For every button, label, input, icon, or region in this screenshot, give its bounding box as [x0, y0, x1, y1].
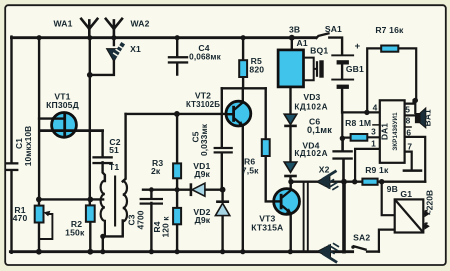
wire G1 lower terminal via SA2 [379, 230, 395, 252]
capacitor C3 [140, 198, 163, 205]
transistor VT3 [274, 189, 300, 215]
capacitor C4 [168, 56, 188, 64]
svg-text:VD3: VD3 [303, 92, 320, 102]
wire C5 stubs [221, 88, 223, 189]
wire R7 right loop [398, 48, 416, 100]
antenna WA1 [81, 19, 97, 38]
capacitor C5 [214, 147, 233, 154]
wire VD4 to X2 row [289, 177, 291, 182]
wire pin7 end bar [404, 169, 421, 172]
connector X2 upper arrow [317, 171, 339, 190]
wire VT2 collector emitter verticals [242, 88, 244, 252]
piezo BQ1 [304, 58, 324, 81]
wire VD3 to VD4 [289, 126, 291, 162]
wire R6 stubs [266, 88, 282, 201]
svg-text:R9 1к: R9 1к [365, 165, 389, 175]
wire A1 to VD3 [289, 87, 291, 115]
resistor R8 [351, 134, 368, 141]
svg-text:10мкх10В: 10мкх10В [23, 126, 33, 167]
wire R5 stubs [242, 38, 244, 89]
svg-text:ЗКР1436УИ1: ЗКР1436УИ1 [392, 112, 399, 151]
wire X2 connector bracket lines [304, 182, 308, 252]
capacitor C6 [332, 150, 352, 160]
wire R1 stubs [38, 199, 40, 252]
wire VT3 collector vertical [290, 182, 292, 191]
resistor R1 (trimmer) [35, 206, 53, 239]
wire SA2 resume [367, 250, 379, 252]
speaker BA1 [415, 108, 426, 128]
antenna WA2 [106, 19, 122, 38]
svg-text:5: 5 [405, 105, 410, 115]
wire VT2 base row [126, 113, 227, 115]
svg-text:2к: 2к [151, 166, 161, 176]
wire R7 left loop [367, 48, 381, 112]
resistor R9 [362, 179, 377, 185]
svg-text:470: 470 [13, 213, 28, 223]
svg-text:3В: 3В [289, 25, 300, 35]
diode VD2 [215, 202, 229, 216]
wire battery bus down to R8 [341, 112, 343, 139]
wire VT3 emitter vertical [290, 213, 292, 252]
transformer T1 [101, 175, 127, 237]
module A1 [278, 50, 303, 87]
svg-text:Д9к: Д9к [195, 215, 211, 225]
switch SA2 [353, 246, 367, 250]
transistor VT1 [52, 113, 77, 138]
wire R8 stubs [342, 136, 380, 139]
svg-text:51: 51 [109, 145, 119, 155]
svg-text:7: 7 [407, 142, 412, 152]
svg-text:КД102А: КД102А [294, 149, 328, 158]
wire X2 thick minus link [342, 182, 346, 252]
wire X1 to drain [90, 38, 114, 75]
svg-text:A1: A1 [297, 38, 308, 48]
wire G1 upper terminal [382, 182, 395, 216]
battery GB1 [331, 54, 354, 89]
svg-text:КП305Д: КП305Д [46, 100, 79, 110]
wire left vertical (C1 branch) [10, 37, 12, 253]
svg-text:T1: T1 [109, 162, 119, 172]
svg-text:КТ3102Б: КТ3102Б [186, 100, 220, 109]
wire T1 bottom link [103, 221, 123, 252]
capacitor C1 [6, 162, 19, 171]
wire VT1 gate horizontal [39, 117, 65, 119]
svg-text:0,068мк: 0,068мк [189, 52, 221, 61]
transistor VT2 [226, 101, 251, 126]
resistor R4 [173, 208, 181, 224]
svg-text:DA1: DA1 [380, 123, 390, 140]
connector X2 lower arrow [317, 243, 339, 262]
svg-text:1: 1 [371, 139, 376, 149]
wire R3 drop [176, 114, 178, 190]
wire bottom common rail [10, 250, 352, 253]
switch SA1 [316, 33, 330, 39]
wire T1 secondary top to base row [123, 114, 126, 181]
diode VD1 [191, 183, 205, 196]
svg-text:+: + [355, 41, 361, 52]
svg-text:WA2: WA2 [130, 19, 149, 29]
svg-text:SA1: SA1 [325, 24, 342, 34]
wire VT1 source row [40, 129, 102, 132]
wire DA1 pin1 loop [355, 149, 380, 182]
svg-text:820: 820 [249, 64, 264, 74]
wire C6 stubs [341, 138, 344, 182]
wire top antenna rail [12, 36, 316, 39]
wire drain vertical x90 [89, 38, 91, 206]
svg-text:7,5к: 7,5к [242, 165, 259, 175]
svg-text:4700: 4700 [136, 210, 146, 229]
wire C3 stubs [150, 190, 152, 252]
wire DA1 pin8 [405, 114, 415, 116]
wire C2 top corner [101, 131, 103, 157]
svg-text:0,1мк: 0,1мк [307, 125, 332, 135]
wire G1 prong stubs [423, 214, 425, 227]
wire X2 plus row [291, 180, 425, 182]
svg-text:R7 16к: R7 16к [375, 25, 404, 35]
svg-text:4: 4 [373, 103, 378, 113]
resistor R5 [239, 60, 247, 77]
svg-text:Д9к: Д9к [194, 169, 210, 179]
rotated labels [14, 109, 435, 237]
svg-text:GB1: GB1 [346, 64, 364, 74]
svg-text:WA1: WA1 [53, 19, 72, 29]
wire A1 top stub [291, 38, 293, 50]
wire R2 stub bottom [89, 222, 91, 252]
G1 mains prongs [424, 210, 429, 230]
DA1 pin numbers [371, 103, 412, 152]
svg-text:X2: X2 [319, 164, 330, 174]
svg-text:SA2: SA2 [353, 232, 370, 242]
wire DA1 pin7 [405, 152, 412, 171]
resistor R3 [173, 163, 181, 178]
capacitor C2 [92, 156, 112, 164]
wire R4 stubs [176, 190, 178, 252]
plug X1 [107, 43, 124, 61]
svg-text:8: 8 [406, 116, 411, 126]
svg-text:BA1: BA1 [423, 109, 433, 126]
wire VT1 gate branch vertical [38, 38, 40, 200]
resistor R6 [262, 139, 270, 156]
wire C2 bottom to T1 [103, 162, 105, 181]
wire VD2 stubs [221, 190, 223, 252]
svg-text:BQ1: BQ1 [310, 45, 328, 55]
wire VT2 upper row y88 [222, 87, 266, 89]
IC DA1 [372, 100, 412, 163]
wire SA1 out to battery [329, 38, 342, 55]
wire GB1 cells link [341, 65, 343, 113]
svg-text:~220В: ~220В [424, 190, 434, 215]
wire detector row y190 [143, 188, 223, 190]
power unit G1 [395, 199, 424, 232]
wire DA1 pin5 [405, 100, 414, 103]
svg-text:150к: 150к [65, 228, 85, 238]
svg-text:0,033мк: 0,033мк [199, 123, 209, 156]
wire DA1 pin4 row [342, 111, 380, 113]
wire R1 R2 row [39, 198, 103, 200]
svg-text:X1: X1 [130, 44, 141, 54]
svg-text:120 к: 120 к [161, 216, 171, 238]
svg-text:G1: G1 [400, 189, 412, 199]
svg-text:R8 1М: R8 1М [345, 118, 371, 128]
wire C4 stub [176, 38, 178, 75]
resistor R2 [86, 205, 95, 221]
diode VD4 [284, 162, 297, 176]
svg-text:КТ315А: КТ315А [251, 222, 283, 232]
diode VD3 [284, 114, 297, 126]
svg-text:9В: 9В [387, 184, 398, 194]
wire DA1 pin6 loop [405, 137, 426, 182]
svg-text:КД102А: КД102А [294, 102, 328, 111]
resistor R7 [381, 46, 398, 52]
svg-text:3: 3 [371, 127, 376, 137]
svg-text:6: 6 [406, 128, 411, 138]
wire speaker drop [414, 100, 416, 113]
